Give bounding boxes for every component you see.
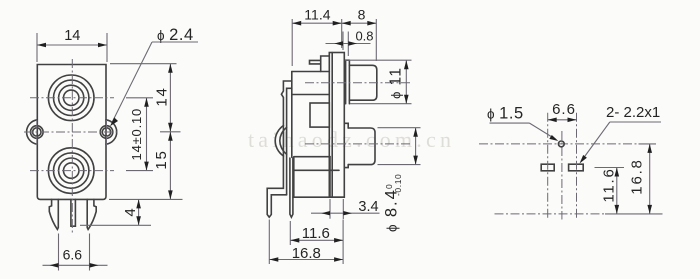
- dim 16.8: ext line: [268, 220, 270, 265]
- vertical centerline right pad: [576, 113, 578, 220]
- dim 14 right vertical: [169, 64, 171, 132]
- spring bracket outer: [267, 81, 292, 217]
- middle pin: [290, 158, 293, 217]
- label phi2.4 leader: [152, 41, 198, 43]
- dim 11.6: ext lines: [289, 221, 291, 245]
- body bottom: [293, 196, 343, 198]
- dim 11.4/8 line: [292, 22, 376, 24]
- dim phi8.4 line: [415, 128, 417, 165]
- ear vertical centerlines: [36, 120, 38, 145]
- upper barrel centerline: [305, 82, 412, 84]
- lower disc: [344, 123, 348, 167]
- step block: [321, 56, 330, 72]
- dim 14 top: extension lines: [36, 33, 38, 62]
- upper washer: [344, 60, 349, 103]
- dim phi11: ext lines: [345, 59, 412, 61]
- side view main body plate: [292, 71, 330, 73]
- dim 16.8 line: [649, 144, 651, 214]
- svg-text:-0.10: -0.10: [393, 174, 403, 196]
- svg-text:2- 2.2x1: 2- 2.2x1: [606, 104, 660, 121]
- vertical centerline hole: [561, 131, 563, 220]
- center pin: [71, 199, 76, 226]
- right pad hole 2.2x1: [569, 164, 584, 171]
- svg-text:16.8: 16.8: [292, 245, 321, 262]
- spring bow outer: [275, 126, 283, 157]
- dim phi8.4: ext lines: [378, 127, 421, 129]
- dim 14+-0.10: extension segs: [126, 97, 153, 99]
- svg-text:3.4: 3.4: [358, 199, 378, 215]
- dim 0.8 line with outward arrows: [326, 43, 371, 45]
- left ear hole rings: [31, 126, 44, 139]
- upper jack centerline: [30, 97, 114, 99]
- top tab: [310, 60, 321, 64]
- dim 6.6: [548, 119, 577, 121]
- ear centerline: [24, 131, 118, 133]
- lower block edge: [329, 157, 331, 198]
- svg-text:6.6: 6.6: [552, 101, 576, 118]
- lower RCA jack rings: [48, 148, 94, 194]
- dim phi11 line: [405, 60, 407, 103]
- dim 6.6 bottom: ext lines: [58, 234, 60, 271]
- dim 3.4 line with outward arrows: [311, 212, 380, 214]
- dim 11.4 / 8: ext lines: [291, 19, 293, 66]
- ext line body bottom right: [109, 198, 183, 200]
- right snap leg: [87, 199, 96, 229]
- inner window: [310, 103, 329, 127]
- lower jack centerline: [30, 170, 114, 172]
- svg-text:14±0.10: 14±0.10: [129, 108, 144, 161]
- bottom reference line: [495, 213, 606, 215]
- svg-text:ϕ 11: ϕ 11: [388, 66, 405, 98]
- svg-text:14: 14: [64, 28, 80, 44]
- body lower-left edge: [293, 157, 295, 197]
- svg-text:11.6: 11.6: [601, 167, 618, 202]
- dim 0.8: ext lines: [342, 32, 344, 51]
- flange inner line: [331, 53, 333, 198]
- lower barrel centerline: [305, 143, 412, 145]
- dim 4 right vertical: [138, 199, 140, 225]
- vertical centerline left pad: [547, 113, 549, 220]
- horizontal centerline: [479, 143, 639, 145]
- spring bracket inner: [287, 88, 292, 195]
- svg-text:15: 15: [153, 149, 170, 169]
- svg-text:4: 4: [122, 208, 139, 216]
- ext line leg bottom: [80, 224, 151, 226]
- right ear lug: [106, 120, 117, 144]
- svg-text:8: 8: [358, 6, 366, 22]
- dim 6.6 bottom: dimension line and outward arrows: [43, 264, 108, 266]
- internal seam lines: [294, 156, 330, 158]
- tick ear level: [160, 131, 181, 133]
- body front view: [37, 65, 106, 200]
- left ear lug: [27, 120, 38, 144]
- lower barrel phi8.4: [348, 128, 375, 165]
- ext line body top right: [110, 63, 177, 65]
- dim 11.6 line: [616, 168, 618, 214]
- vertical centerline: [71, 59, 73, 233]
- dim phi8.4 text with tolerance: [383, 174, 404, 232]
- svg-text:ϕ 2.4: ϕ 2.4: [157, 26, 194, 44]
- svg-text:11.4: 11.4: [304, 6, 330, 22]
- spring bow inner: [280, 128, 287, 155]
- phi1.5 hole: [558, 141, 564, 147]
- dim 11.6: ext line: [595, 167, 625, 169]
- svg-text:16.8: 16.8: [629, 158, 646, 194]
- upper barrel phi11: [349, 65, 376, 100]
- right ear hole rings (phi 2.4): [100, 126, 113, 139]
- svg-text:14: 14: [154, 86, 171, 106]
- svg-text:ϕ 1.5: ϕ 1.5: [487, 104, 524, 122]
- upper RCA jack rings: [48, 75, 94, 121]
- dim 14 top: dimension line: [37, 44, 107, 46]
- left pad hole 2.2x1: [541, 164, 554, 171]
- dim 3.4: ext lines: [329, 199, 331, 219]
- svg-text:6.6: 6.6: [63, 247, 83, 263]
- dim 16.8 line: [269, 259, 343, 261]
- dim 15 right vertical: [169, 132, 171, 200]
- svg-text:11.6: 11.6: [302, 225, 330, 242]
- left snap leg: [49, 199, 58, 229]
- flange plate: [329, 53, 344, 198]
- internal seam upper: [292, 94, 330, 96]
- svg-text:0.8: 0.8: [355, 29, 373, 44]
- dim 11.6 line: [290, 239, 343, 241]
- dim 14+-0.10 line: [146, 98, 148, 171]
